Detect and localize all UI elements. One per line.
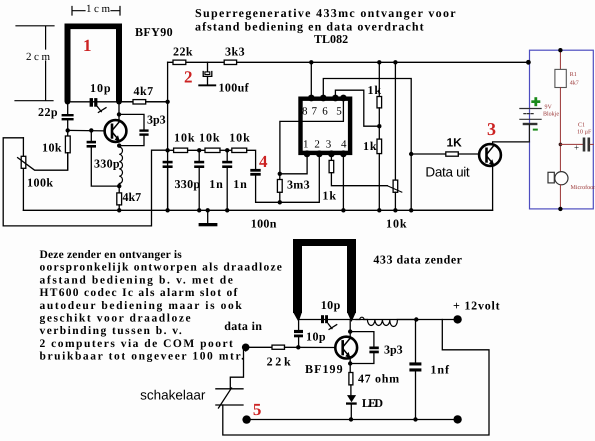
svg-text:4k7: 4k7: [570, 80, 579, 87]
wire pin4 to rail: [342, 155, 344, 210]
svg-text:7: 7: [312, 106, 318, 118]
svg-text:Blokje: Blokje: [543, 111, 559, 118]
battery + (green): [531, 100, 540, 103]
dimension bracket 1cm: [72, 7, 120, 16]
junction 4k7/22k: [165, 100, 169, 104]
junction rail cap2: [197, 208, 201, 212]
wire data in to 22k: [246, 346, 272, 348]
svg-text:1n: 1n: [209, 177, 223, 191]
junction coil bottom: [117, 184, 121, 188]
junction cap100n bottom: [278, 200, 282, 204]
svg-text:100uf: 100uf: [219, 80, 250, 94]
svg-text:1k: 1k: [363, 139, 377, 153]
antenna loop L2 (transmitter): [293, 239, 356, 322]
svg-text:BFY90: BFY90: [135, 25, 173, 39]
battery minus wire to Q3 collector: [528, 125, 530, 142]
pin 7 dot: [320, 95, 327, 102]
svg-text:10k: 10k: [199, 131, 220, 145]
resistor 1k (lower): [377, 139, 382, 154]
svg-text:LED: LED: [362, 396, 384, 410]
resistor 3k3: [224, 60, 236, 64]
emitter junction tx: [348, 361, 352, 365]
svg-text:2 computers via de COM poort: 2 computers via de COM poort: [40, 338, 234, 350]
junction collector tx: [348, 329, 352, 333]
svg-text:9V: 9V: [545, 105, 553, 111]
wire pin7 (A): [323, 79, 411, 211]
svg-text:+: +: [574, 143, 579, 153]
inductor (emitter coil): [119, 146, 122, 187]
junction ladder start: [165, 148, 169, 152]
capacitor 100uf electrolytic: [207, 62, 209, 72]
svg-text:R1: R1: [570, 72, 577, 78]
pin 2 dot: [316, 150, 323, 157]
battery - (green): [533, 129, 538, 131]
trimmer capacitor 10p (receiver antenna): [90, 98, 98, 107]
svg-text:433 data zender: 433 data zender: [373, 253, 462, 267]
wire pin3 to 1k: [330, 155, 332, 160]
svg-text:2cm: 2cm: [26, 51, 50, 63]
junction collector node: [117, 112, 121, 116]
svg-text:1n: 1n: [233, 177, 247, 191]
description text block: [40, 249, 283, 363]
capacitor 1nf: [415, 320, 417, 363]
svg-text:data in: data in: [224, 319, 262, 333]
svg-text:1K: 1K: [447, 136, 463, 150]
capacitor 3p3 (tx): [369, 347, 378, 354]
svg-text:2: 2: [184, 68, 193, 87]
resistor 3m3: [279, 174, 281, 180]
junction cap3 tap: [225, 148, 229, 152]
svg-text:Microfoon: Microfoon: [571, 184, 595, 191]
svg-text:8: 8: [302, 106, 308, 118]
antenna loop L1 (receiver): [65, 24, 123, 105]
svg-text:schakelaar: schakelaar: [140, 388, 206, 403]
wire pin1: [280, 155, 307, 174]
svg-text:4: 4: [259, 152, 268, 171]
resistor R1 4k7: [559, 50, 561, 69]
svg-text:bruikbaar tot ongeveer 100 mtr: bruikbaar tot ongeveer 100 mtr.: [40, 351, 245, 363]
wire vertical trunk x=167.6: [167, 62, 169, 210]
ladder wire a-b: [188, 149, 205, 151]
resistor 1k (upper): [377, 97, 382, 108]
capacitor 100n: [250, 169, 260, 176]
svg-text:3p3: 3p3: [147, 113, 166, 127]
svg-text:4k7: 4k7: [123, 190, 142, 204]
svg-text:22k: 22k: [173, 44, 193, 58]
pot wiper diagonal: [387, 186, 402, 192]
capacitor 330p (emitter): [89, 128, 93, 132]
svg-text:3m3: 3m3: [287, 178, 310, 192]
wire base: [68, 129, 105, 132]
pin 1 dot: [304, 150, 311, 157]
svg-text:afstand bediening en data over: afstand bediening en data overdracht: [195, 20, 424, 34]
junction LED rail: [349, 417, 353, 421]
junction mic to box bottom: [558, 207, 562, 211]
svg-text:Data uit: Data uit: [425, 165, 470, 180]
svg-text:4k7: 4k7: [134, 84, 154, 98]
svg-text:100n: 100n: [251, 217, 277, 231]
svg-text:5: 5: [336, 106, 342, 118]
battery sub-circuit blue box: [530, 50, 594, 209]
wire pin6 (B): [335, 90, 379, 126]
svg-text:3p3: 3p3: [384, 343, 403, 357]
dimension bracket 2cm: [15, 26, 54, 101]
resistor 10k (base): [65, 136, 70, 153]
svg-text:10k: 10k: [174, 131, 195, 145]
svg-text:6: 6: [322, 106, 328, 118]
cap1 wire: [167, 168, 169, 210]
svg-text:47 ohm: 47 ohm: [358, 372, 400, 386]
svg-text:1: 1: [303, 138, 309, 150]
svg-text:2: 2: [314, 138, 320, 150]
svg-text:afstand bediening b. v. met d: afstand bediening b. v. met de: [40, 274, 234, 286]
junction cap2 tap: [197, 148, 201, 152]
trimmer capacitor 10p (tx antenna): [321, 315, 328, 323]
transistor Q3 (data out): [479, 144, 501, 166]
junction R1/C1/mic: [559, 143, 563, 147]
top supply rail: [168, 61, 529, 63]
svg-text:10k: 10k: [42, 141, 62, 155]
svg-text:1k: 1k: [322, 189, 336, 203]
microphone: [548, 172, 554, 183]
pin 6 dot: [332, 95, 339, 102]
terminal 5 dot: [242, 415, 250, 423]
junction 1nf rail: [413, 417, 417, 421]
svg-text:10p: 10p: [306, 330, 326, 344]
resistor 47 ohm: [349, 373, 353, 385]
svg-text:1cm: 1cm: [86, 3, 110, 15]
svg-text:Deze zender en ontvanger is: Deze zender en ontvanger is: [40, 249, 183, 261]
switch to bottom loop wire: [223, 320, 489, 436]
terminal +12volt: [453, 315, 461, 323]
emitter wire Q3: [411, 165, 492, 210]
ladder resistor 10k c: [232, 148, 247, 152]
inductor L3 (supply): [356, 317, 416, 326]
svg-text:10k: 10k: [229, 131, 250, 145]
wire pin5 internal: [280, 98, 344, 174]
svg-text:22p: 22p: [38, 105, 58, 119]
pin 3 dot: [328, 150, 335, 157]
svg-text:+ 12volt: + 12volt: [453, 299, 500, 313]
resistor 1K (data out): [411, 153, 446, 155]
wire to 3p3: [119, 114, 144, 129]
terminal ground return: [453, 415, 461, 423]
junction rail: [117, 208, 121, 212]
ladder wire b-c: [220, 149, 232, 151]
battery 9V: [520, 109, 541, 125]
capacitor 330p (ladder): [163, 161, 173, 168]
wire pin8 to rail: [310, 62, 312, 98]
pin 8 dot: [308, 95, 315, 102]
svg-text:330p: 330p: [94, 157, 120, 171]
junction emitter node: [117, 143, 121, 147]
junction divider mid: [377, 124, 381, 128]
pin 4 dot: [340, 150, 347, 157]
svg-text:autodeur bediening maar is ook: autodeur bediening maar is ook: [40, 300, 243, 312]
collector wire Q3: [493, 142, 530, 145]
resistor 1k (pin3): [329, 160, 334, 172]
svg-text:BF199: BF199: [305, 362, 343, 376]
divider chain 1k top: [378, 62, 380, 96]
junction coupling/base: [296, 345, 300, 349]
junction rail cap1: [165, 208, 169, 212]
svg-text:3: 3: [487, 119, 496, 139]
svg-text:10k: 10k: [386, 217, 407, 231]
svg-text:TL082: TL082: [314, 32, 349, 46]
wire left frame: [3, 138, 167, 226]
svg-text:1k: 1k: [368, 83, 382, 97]
pin 5 dot: [340, 95, 347, 102]
svg-text:1nf: 1nf: [430, 363, 450, 377]
junction 1nf tap: [414, 317, 418, 321]
capacitor 3p3 (receiver): [139, 129, 148, 135]
junction rail to battery: [526, 60, 531, 65]
LED D1: [347, 395, 356, 402]
svg-text:10 µF: 10 µF: [577, 130, 592, 136]
svg-text:1: 1: [83, 36, 92, 55]
svg-text:5: 5: [253, 400, 262, 419]
transistor Q1 BFY90: [105, 120, 127, 142]
potentiometer 10k (regen): [394, 62, 396, 180]
svg-text:10p: 10p: [90, 81, 111, 95]
svg-text:oorspronkelijk ontworpen als d: oorspronkelijk ontworpen als draadloze: [40, 262, 283, 274]
svg-text:verbinding tussen b. v.: verbinding tussen b. v.: [40, 325, 183, 337]
ladder resistor 10k b: [205, 148, 220, 152]
junction rail pin7 line: [409, 208, 413, 212]
svg-text:4: 4: [341, 138, 347, 150]
svg-text:330p: 330p: [175, 177, 201, 191]
capacitor C1 10uF: [560, 143, 582, 145]
op-amp U1 TL082 box: [301, 99, 351, 153]
svg-text:3: 3: [326, 138, 332, 150]
data in terminal: [242, 344, 250, 352]
wire antenna bottom (tx): [299, 319, 417, 321]
svg-text:Superregenerative 433mc ontvan: Superregenerative 433mc ontvanger voor: [195, 6, 456, 20]
wire to cap 100n: [247, 150, 256, 169]
junction data out tap: [409, 152, 413, 156]
junction 3m3 top: [278, 172, 282, 176]
ground symbol: [207, 210, 209, 223]
capacitor 10p (coupling): [298, 321, 300, 330]
tx ground rail: [247, 419, 458, 421]
switch feed wire: [230, 347, 245, 389]
svg-text:100k: 100k: [27, 176, 54, 190]
capacitor 1n b: [222, 161, 232, 168]
capacitor 22p: [67, 104, 69, 114]
svg-text:geschikt voor draadloze: geschikt voor draadloze: [40, 313, 191, 325]
resistor 22k: [173, 60, 186, 64]
capacitor 1n a: [194, 161, 204, 168]
wire to 3p3 tx: [350, 332, 374, 347]
junction rail cap3: [225, 208, 229, 212]
svg-text:3k3: 3k3: [225, 44, 245, 58]
collector wire: [118, 104, 120, 122]
wire antenna bottom: [68, 101, 168, 103]
svg-text:HT600 codec Ic als alarm slot: HT600 codec Ic als alarm slot of: [40, 287, 238, 299]
svg-text:C1: C1: [578, 123, 585, 129]
junction base node: [66, 128, 70, 132]
collector wire Q2: [349, 320, 351, 339]
receiver ground rail: [23, 209, 492, 211]
resistor 4k7 (emitter): [118, 186, 120, 193]
switch (schakelaar): [216, 388, 243, 408]
ladder resistor 10k a: [168, 149, 174, 151]
potentiometer 100k: [18, 138, 68, 211]
resistor 22k (tx base): [272, 345, 285, 349]
wire to +12v: [416, 319, 453, 321]
svg-text:10p: 10p: [321, 298, 341, 312]
transistor Q2 BF199: [335, 337, 357, 359]
resistor 4k7 (collector feed): [119, 101, 133, 103]
svg-text:22k: 22k: [267, 355, 292, 369]
